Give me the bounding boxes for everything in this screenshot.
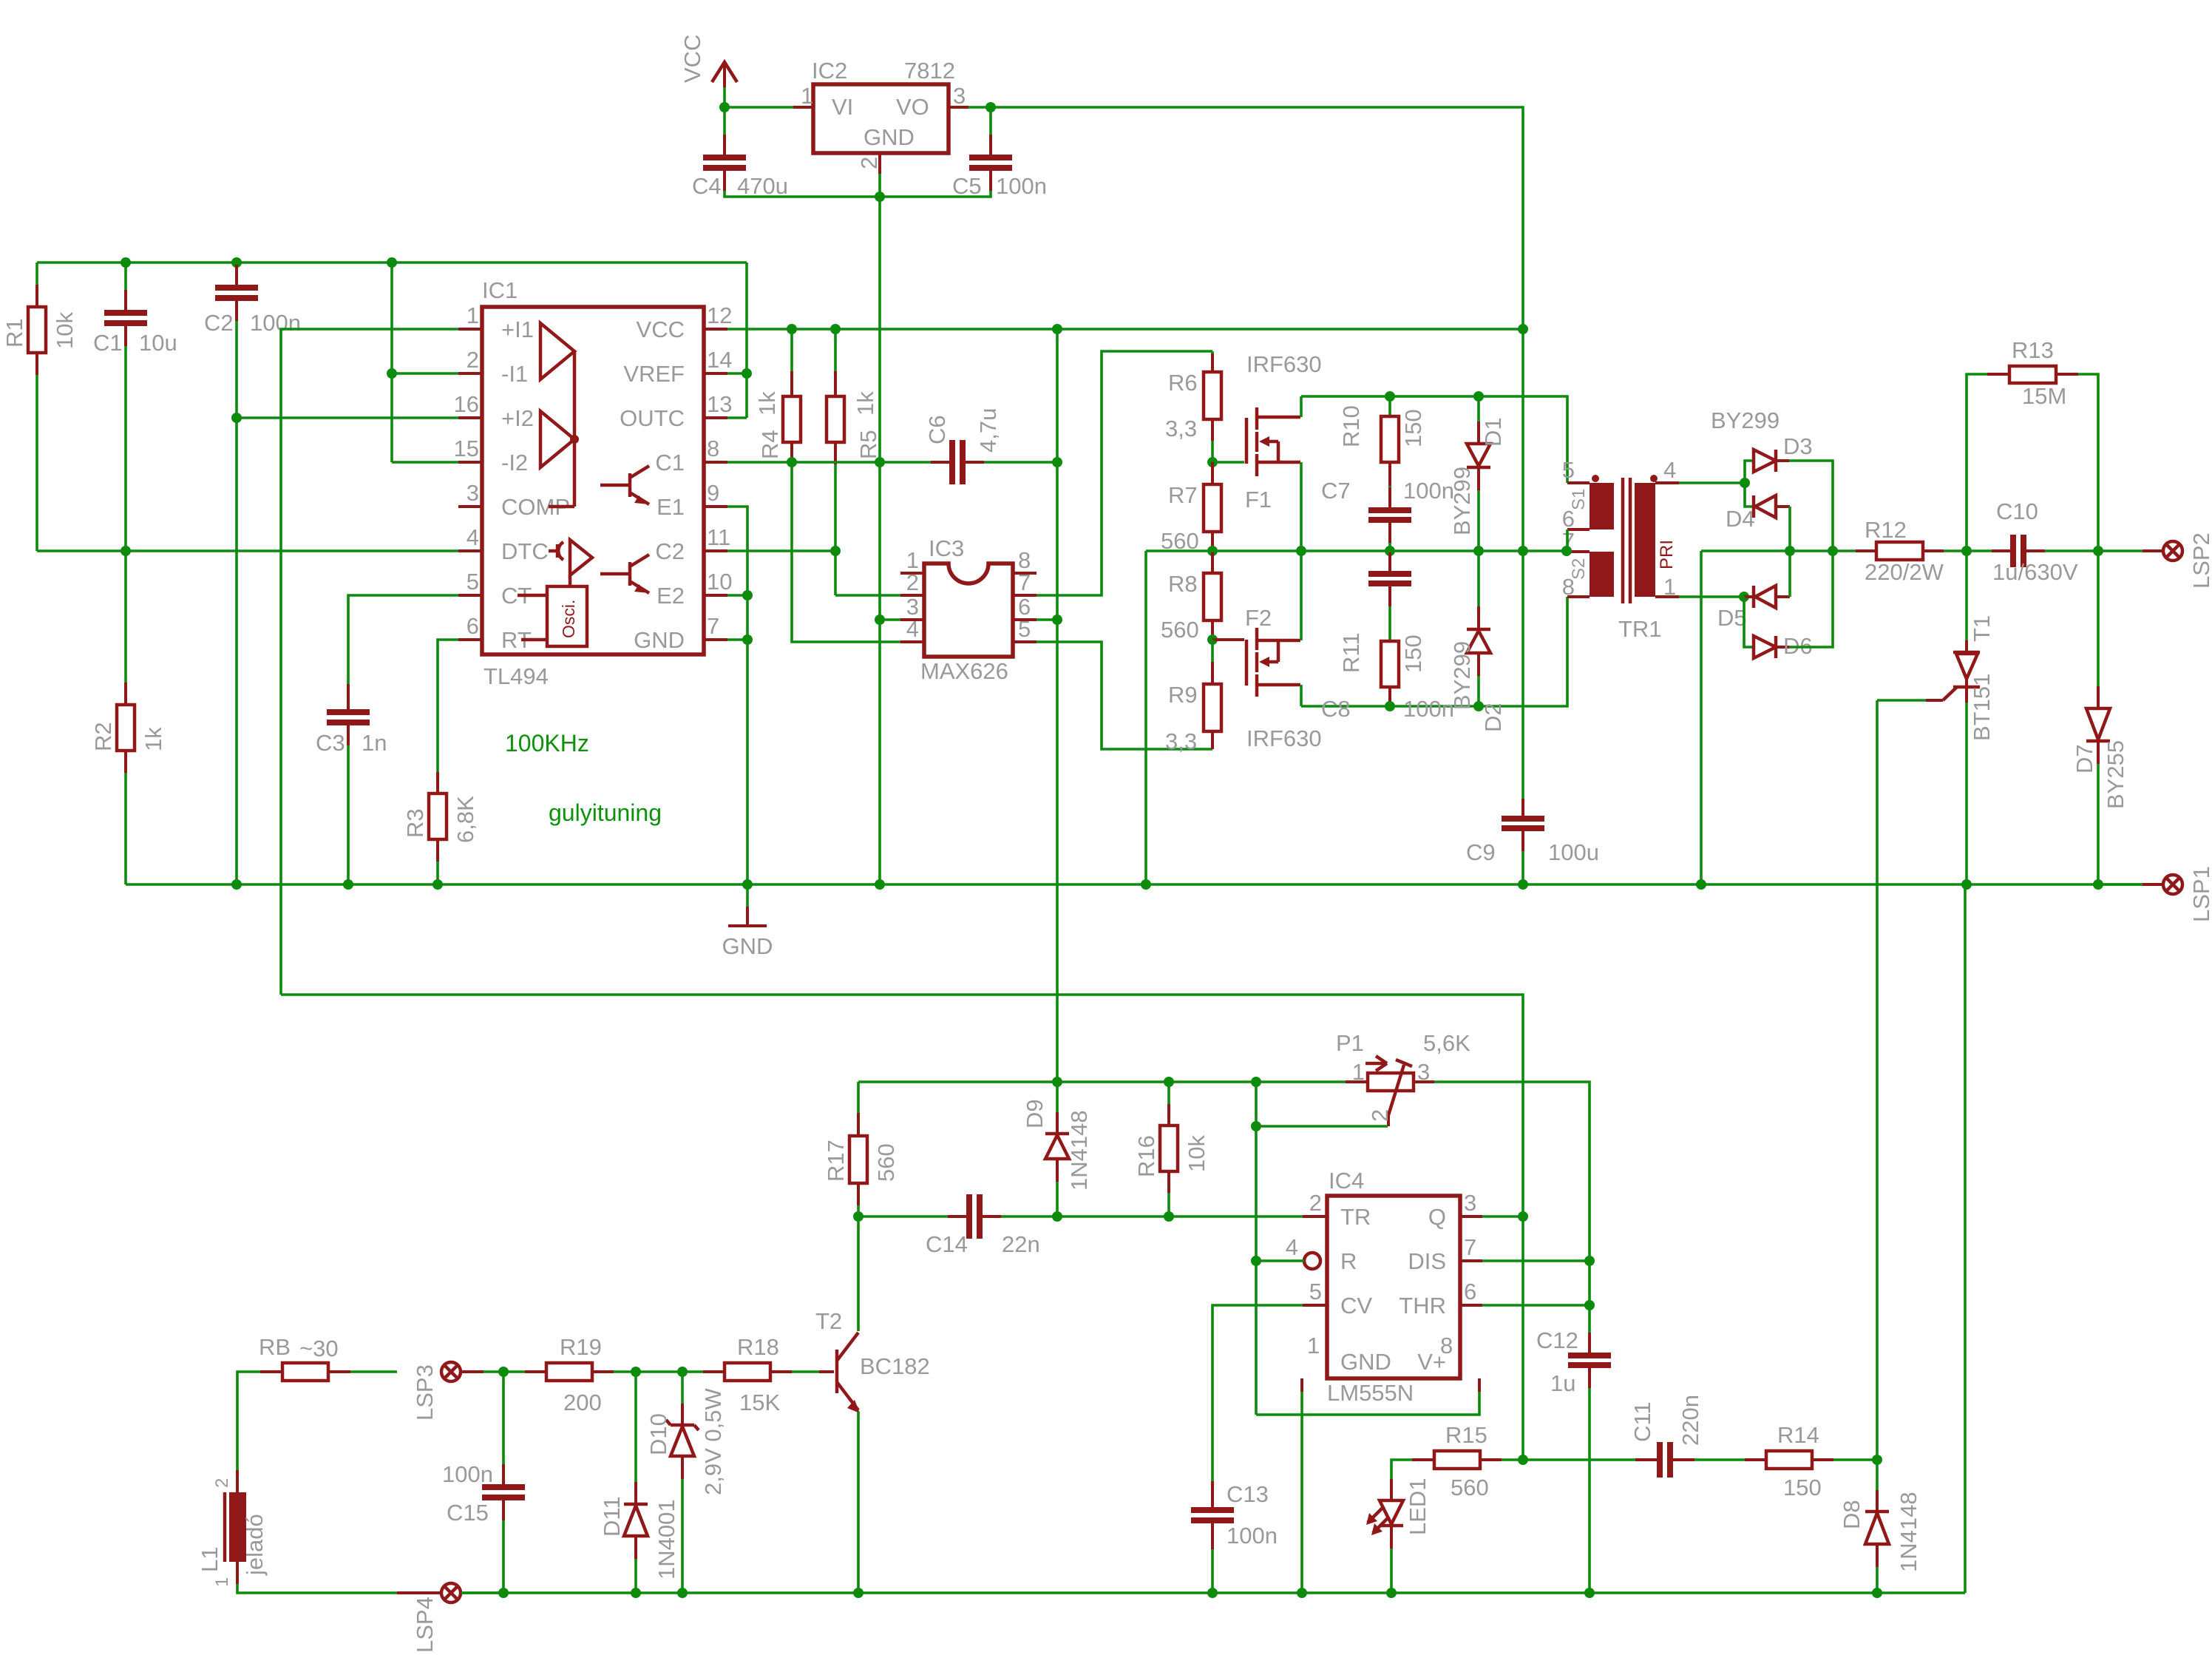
node TR1 pin7 mid rail (1561, 546, 1572, 556)
svg-text:560: 560 (1161, 617, 1199, 643)
resistor R6 3,3 (1165, 351, 1221, 462)
wire CT row (348, 595, 458, 684)
svg-text:R7: R7 (1168, 482, 1198, 508)
node bottom D11 (631, 1588, 641, 1598)
node wiper column top (1251, 1077, 1261, 1087)
node LSP3/C15/R19 (498, 1367, 509, 1377)
svg-text:100KHz: 100KHz (505, 730, 589, 757)
pin 15 -I2 (454, 436, 529, 475)
svg-text:R3: R3 (402, 808, 428, 838)
IC U4 LM555N box (1327, 1168, 1460, 1406)
svg-text:22n: 22n (1002, 1231, 1040, 1257)
capacitor C5 100n (952, 107, 1047, 199)
pin IC4-1 GND (1302, 1333, 1391, 1392)
wire +I2 row (237, 416, 458, 419)
svg-text:C1: C1 (655, 450, 685, 475)
diode D2 BY299 (1449, 551, 1506, 732)
node rail D7 (2093, 879, 2103, 890)
svg-text:THR: THR (1399, 1293, 1446, 1319)
diode D8 1N4148 (1839, 1460, 1921, 1593)
pin IC3-2 (900, 569, 924, 595)
node D9 top (1052, 1077, 1062, 1087)
svg-text:11: 11 (707, 524, 730, 550)
pin 4 DTC (458, 524, 549, 564)
node rail IC2 ground column (875, 879, 885, 890)
svg-text:5: 5 (1309, 1279, 1322, 1304)
svg-text:2: 2 (856, 157, 882, 169)
node bottom D10 (677, 1588, 688, 1598)
resistor R12 220/2W (1856, 517, 1967, 585)
wire TR row left segment (858, 1215, 949, 1218)
diode D9 1N4148 (1022, 1082, 1092, 1216)
node R17/C14/T2 junction (853, 1211, 864, 1222)
svg-text:LSP1: LSP1 (2188, 866, 2212, 922)
node mid rail junctions (1296, 546, 1306, 556)
node rail mid-rail drop (1141, 879, 1151, 890)
wire +I1 row and feedback column (281, 329, 458, 995)
node R4 top (787, 324, 797, 334)
svg-text:150: 150 (1783, 1475, 1822, 1500)
node VREF junction (742, 368, 752, 379)
svg-text:L1: L1 (197, 1547, 223, 1572)
svg-text:5: 5 (467, 569, 479, 595)
svg-text:15: 15 (454, 436, 479, 461)
wire TR row right segment (1000, 1215, 1303, 1218)
svg-text:100n: 100n (250, 310, 301, 336)
resistor R16 10k (1133, 1082, 1210, 1216)
svg-text:-I2: -I2 (501, 450, 528, 475)
svg-text:5,6K: 5,6K (1423, 1030, 1470, 1056)
pin 10 E2 (657, 569, 732, 609)
svg-text:D10: D10 (645, 1413, 671, 1455)
wire VREF column (reference rail down to VREF/OUTC) (745, 263, 748, 418)
svg-text:10u: 10u (139, 330, 177, 356)
pin 16 +I2 (454, 391, 534, 431)
svg-text:VO: VO (896, 94, 929, 120)
node bottom C15 (498, 1588, 509, 1598)
capacitor C10 1u/630V (1967, 498, 2098, 585)
svg-text:C6: C6 (924, 415, 950, 444)
svg-text:R6: R6 (1168, 370, 1198, 396)
svg-text:VREF: VREF (623, 361, 685, 387)
node D9 bottom (1052, 1211, 1062, 1222)
IC U3 MAX626 (920, 535, 1013, 684)
wire LSP1 rail (126, 883, 2143, 886)
svg-text:R: R (1340, 1248, 1357, 1274)
svg-text:R14: R14 (1777, 1422, 1819, 1448)
svg-text:R4: R4 (757, 430, 783, 459)
wire pot row 1463 (858, 1080, 1346, 1083)
svg-text:~30: ~30 (299, 1336, 339, 1361)
wire mid rail (1146, 549, 1567, 552)
svg-text:D2: D2 (1480, 703, 1506, 732)
svg-text:1n: 1n (362, 730, 387, 756)
svg-text:7: 7 (707, 613, 719, 639)
svg-text:DIS: DIS (1408, 1248, 1446, 1274)
transistor F2 IRF630 MOSFET (1245, 605, 1322, 751)
terminal LSP4 (397, 1583, 503, 1653)
node GND7 junction (742, 634, 753, 645)
zener diode D10 2,9V (645, 1372, 726, 1593)
resistor R8 560 (1161, 551, 1221, 643)
wire output rail to R12 (1701, 549, 1856, 552)
diode D1 BY299 (1449, 396, 1506, 551)
svg-text:PRI: PRI (1657, 540, 1677, 569)
node C7/C8 mid (1385, 546, 1395, 556)
resistor R9 3,3 (1165, 640, 1221, 754)
pin 14 VREF (623, 347, 732, 387)
pin IC4-8 V+ (1417, 1333, 1479, 1392)
node DIS junction (1584, 1256, 1595, 1266)
node D5/D6 column (1739, 592, 1749, 602)
capacitor C1 10u (93, 263, 177, 551)
svg-text:LSP3: LSP3 (412, 1364, 438, 1421)
svg-text:RB: RB (259, 1334, 291, 1360)
svg-text:R16: R16 (1133, 1135, 1159, 1177)
capacitor C11 220n (1629, 1395, 1745, 1478)
svg-text:5: 5 (1562, 457, 1575, 483)
node D1/D2 mid (1473, 546, 1484, 556)
svg-text:C3: C3 (316, 730, 345, 756)
pin IC3-3 (900, 594, 924, 620)
svg-text:MAX626: MAX626 (920, 658, 1008, 684)
node bottom T2 (853, 1588, 864, 1598)
svg-text:16: 16 (454, 391, 479, 417)
wire OUTC pin to column (727, 416, 747, 419)
node D2 bottom (1473, 701, 1484, 711)
svg-text:220/2W: 220/2W (1865, 559, 1944, 585)
pin 3 COMP (458, 480, 570, 520)
svg-text:jeladó: jeladó (242, 1514, 268, 1576)
resistor R13 15M (1967, 337, 2098, 551)
svg-text:100n: 100n (996, 173, 1047, 199)
wire RT row (438, 640, 458, 772)
svg-text:BY299: BY299 (1449, 641, 1475, 710)
svg-text:C13: C13 (1227, 1481, 1269, 1507)
wire between D11 and D10 nodes (636, 1370, 682, 1373)
svg-text:100n: 100n (442, 1461, 493, 1487)
wire VCC row from pin12 (727, 328, 1523, 331)
wire P1 wiper row to reset column (1255, 1082, 1258, 1415)
diode D4 BY299 (1726, 483, 1790, 532)
svg-text:1N4148: 1N4148 (1066, 1110, 1092, 1191)
wire IC2 ground column down to LSP1 rail (878, 197, 881, 884)
op-amp comparator 1 inside IC1 (540, 323, 574, 507)
svg-text:BT151: BT151 (1969, 674, 1995, 741)
wire R5 bottom to MAX pin2 (835, 594, 900, 597)
node C1 top (121, 257, 131, 268)
wire MAX pin3 stub wire (880, 618, 900, 621)
node R4 bottom (787, 457, 797, 467)
oscillator block inside IC1 (518, 586, 587, 646)
terminal LSP2 (2098, 532, 2212, 589)
pin 6 RT (458, 613, 532, 653)
wire bottom common row (461, 1591, 1965, 1594)
svg-text:IC3: IC3 (929, 535, 964, 561)
wire GND pin1 down to bottom row (1300, 1392, 1303, 1593)
svg-text:7812: 7812 (904, 58, 955, 84)
pin IC3-1 (900, 547, 924, 573)
wire F1 drain up (1300, 396, 1303, 417)
svg-text:CV: CV (1340, 1293, 1372, 1319)
svg-text:GND: GND (864, 124, 915, 150)
svg-text:470u: 470u (737, 173, 788, 199)
node R5 top (830, 324, 841, 334)
wire F2 drain up to mid rail (1300, 551, 1303, 640)
svg-text:R19: R19 (560, 1334, 602, 1360)
svg-text:150: 150 (1400, 409, 1426, 447)
node R11 bottom (1385, 701, 1395, 711)
svg-text:R2: R2 (90, 722, 116, 751)
svg-text:6: 6 (1464, 1279, 1476, 1304)
node VCC input junction (719, 102, 730, 112)
svg-text:3: 3 (953, 83, 966, 109)
capacitor C8 100n (1321, 551, 1454, 722)
svg-text:1N4001: 1N4001 (654, 1499, 679, 1580)
wire TR1 pin6 elbow to mid rail (1566, 529, 1569, 551)
wire divider column (390, 263, 393, 462)
node output rail at 2421 (1785, 546, 1795, 556)
svg-text:F1: F1 (1245, 487, 1272, 512)
svg-text:TR: TR (1340, 1204, 1371, 1230)
supply VCC symbol (679, 35, 737, 87)
svg-text:VCC: VCC (637, 317, 685, 342)
pin TR1-8 (1567, 595, 1590, 598)
svg-text:10: 10 (707, 569, 732, 595)
wire VO node to right corner (991, 107, 1523, 329)
svg-text:D9: D9 (1022, 1099, 1048, 1128)
svg-text:R10: R10 (1338, 405, 1364, 447)
node rail R3 (432, 879, 443, 890)
node IC2 GND junction (875, 192, 885, 202)
svg-text:1k: 1k (140, 727, 166, 751)
svg-text:2: 2 (1367, 1109, 1393, 1122)
svg-text:10k: 10k (1184, 1135, 1210, 1172)
svg-text:4,7u: 4,7u (975, 408, 1001, 453)
svg-text:R11: R11 (1338, 632, 1364, 673)
svg-text:15K: 15K (739, 1390, 780, 1415)
node C10 right / D7 top (2093, 546, 2103, 556)
wire E2 to emitter column (727, 594, 747, 597)
pin IC4-4 R with bubble (1286, 1234, 1357, 1274)
svg-text:100n: 100n (1403, 696, 1454, 722)
svg-text:D1: D1 (1480, 417, 1506, 447)
ground symbol GND (722, 907, 773, 959)
resistor R14 150 (1745, 1422, 1877, 1500)
svg-text:1N4148: 1N4148 (1896, 1492, 1921, 1572)
node D11 top (631, 1367, 641, 1377)
svg-text:R18: R18 (737, 1334, 779, 1360)
node MAX pin6 (1052, 615, 1062, 625)
resistor R11 150 (1338, 632, 1426, 706)
svg-text:1u: 1u (1550, 1370, 1575, 1396)
node Q output junction (1518, 1211, 1528, 1222)
resistor RB ~30 (237, 1334, 397, 1470)
node bottom IC4 GND (1297, 1588, 1307, 1598)
node C2 top (231, 257, 242, 268)
resistor R5 1k (827, 329, 881, 595)
svg-text:D4: D4 (1726, 506, 1755, 532)
node rail C9 (1518, 879, 1528, 890)
capacitor C6 4,7u (924, 408, 1001, 484)
svg-text:10k: 10k (52, 312, 78, 349)
svg-text:1: 1 (801, 83, 813, 109)
resistor R17 560 (823, 1082, 899, 1216)
svg-text:4: 4 (467, 524, 479, 550)
svg-text:12: 12 (707, 302, 732, 328)
wire TR1 pin1 to D5/D6 node (1679, 595, 1744, 598)
terminal LSP3 (412, 1362, 503, 1421)
node D10 top (677, 1367, 688, 1377)
svg-text:2: 2 (467, 347, 479, 373)
wire C1 row pin8 to C6 left (727, 461, 932, 464)
svg-text:C2: C2 (655, 538, 685, 564)
wire T2 emitter down to bottom row (857, 1412, 860, 1593)
wire VCC stem (723, 87, 726, 107)
svg-text:1: 1 (212, 1577, 232, 1587)
pin 5 CT (458, 569, 532, 609)
wire F2 source down to bottom rail (1300, 685, 1303, 706)
svg-text:TL494: TL494 (484, 663, 549, 689)
wire top drain node row (1301, 396, 1567, 483)
svg-text:3: 3 (467, 480, 479, 506)
wire output drop to LSP1 rail (1700, 551, 1703, 884)
svg-text:2: 2 (906, 569, 919, 595)
wire V+ pin8 loop to wiper column (1256, 1392, 1479, 1415)
svg-text:C4: C4 (692, 173, 722, 199)
resistor R15 560 (1391, 1422, 1523, 1500)
svg-text:D8: D8 (1839, 1500, 1865, 1529)
wire CV to C13 (1212, 1305, 1303, 1481)
pin IC4-2 TR (1303, 1190, 1371, 1230)
svg-text:9: 9 (707, 480, 719, 506)
diode D11 1N4001 (599, 1372, 679, 1593)
svg-text:Q: Q (1428, 1204, 1446, 1230)
svg-text:C14: C14 (926, 1231, 968, 1257)
svg-text:4: 4 (1286, 1234, 1298, 1260)
node VCC column mid rail (1518, 546, 1528, 556)
node F2 gate (1207, 634, 1218, 645)
svg-text:1u/630V: 1u/630V (1992, 559, 2078, 585)
svg-text:1k: 1k (852, 391, 878, 416)
node R15 right / Q column / C11 (1518, 1455, 1528, 1465)
node pin11/R5 junction (830, 546, 841, 556)
resistor R3 6,8K (402, 772, 478, 884)
node R16 bottom (1164, 1211, 1174, 1222)
wire T2 collector up to TR row (857, 1216, 860, 1331)
node DTC / C1 / R2 junction (121, 546, 131, 556)
transformer TR1 winding PRI (1635, 483, 1677, 597)
wire reset net to pin4 bubble (1256, 1259, 1304, 1262)
svg-text:IC4: IC4 (1329, 1168, 1364, 1194)
svg-text:VCC: VCC (679, 35, 705, 83)
svg-text:1: 1 (1352, 1059, 1365, 1085)
svg-text:C5: C5 (952, 173, 982, 199)
svg-text:150: 150 (1400, 634, 1426, 673)
thyristor T1 BT151 (1877, 551, 1995, 884)
svg-text:BY299: BY299 (1711, 407, 1780, 433)
capacitor C3 1n (316, 684, 387, 884)
diode D7 BY255 (2072, 551, 2128, 884)
capacitor C15 100n (442, 1372, 525, 1593)
svg-text:C7: C7 (1321, 478, 1351, 504)
node rail GND column (742, 879, 753, 890)
svg-text:100u: 100u (1548, 839, 1599, 865)
node D1 top (1473, 391, 1484, 402)
capacitor C7 100n (1321, 478, 1454, 551)
resistor R2 1k (90, 551, 166, 884)
pin IC3-7 (1013, 569, 1037, 595)
wire feedback +I1 row (281, 995, 1523, 1216)
svg-text:BY299: BY299 (1449, 467, 1475, 535)
svg-text:+I1: +I1 (501, 317, 534, 342)
node C6 right column (1052, 457, 1062, 467)
node E2 junction (742, 590, 753, 600)
transistor T2 BC182 (815, 1308, 930, 1413)
capacitor C12 1u (1536, 1327, 1611, 1593)
svg-text:3,3: 3,3 (1165, 728, 1197, 754)
wire D4/D5 anodes to output rail (1788, 507, 1791, 597)
resistor R4 1k (754, 329, 801, 462)
svg-text:R1: R1 (1, 318, 27, 348)
wire MAX pin5 gate drive F2 (1037, 642, 1212, 749)
dead-time comparator inside IC1 (549, 540, 592, 586)
op-amp comparator 2 inside IC1 (540, 411, 579, 467)
svg-text:D11: D11 (599, 1496, 625, 1537)
node R13/T1 column (1961, 546, 1972, 556)
wire F2 gate (1212, 638, 1244, 641)
diode D6 BY299 (1744, 597, 1813, 659)
svg-text:GND: GND (722, 933, 773, 959)
wire THR to column (1482, 1304, 1590, 1307)
node rail C2 (231, 879, 242, 890)
svg-text:2: 2 (212, 1478, 232, 1488)
svg-text:BY255: BY255 (2103, 740, 2128, 809)
node divider column top (387, 257, 397, 268)
wire P1 pin3 to DIS/THR column (1434, 1082, 1590, 1342)
node R14/D8/T1 gate (1872, 1455, 1882, 1465)
node rail C3 (343, 879, 353, 890)
transformer TR1 core (1623, 478, 1630, 603)
svg-text:D5: D5 (1717, 605, 1747, 631)
LED LED1 (1366, 1478, 1431, 1593)
svg-text:LSP4: LSP4 (412, 1597, 438, 1653)
svg-text:GND: GND (634, 627, 685, 653)
svg-text:T1: T1 (1969, 615, 1995, 642)
node C6 column top (1052, 324, 1062, 334)
wire mid rail drop to LSP1 rail (1144, 551, 1147, 749)
wire T1 gate column down (1876, 700, 1879, 1460)
node R7/R8 mid rail (1207, 546, 1218, 556)
wire DIS to column (1482, 1259, 1590, 1262)
wire D3/D6 cathodes column (1789, 461, 1833, 647)
svg-text:7: 7 (1464, 1234, 1476, 1260)
node output rail at 2479 (1828, 546, 1838, 556)
svg-text:VI: VI (832, 94, 853, 120)
svg-text:100n: 100n (1227, 1523, 1278, 1549)
terminal LSP1 (2098, 866, 2212, 922)
capacitor C13 100n (1191, 1481, 1278, 1593)
pin 11 C2 (655, 524, 730, 564)
svg-text:GND: GND (1340, 1349, 1391, 1375)
svg-text:P1: P1 (1336, 1030, 1364, 1056)
svg-text:560: 560 (873, 1143, 899, 1182)
wire VO to C5 node (968, 106, 991, 109)
node reset junction (1251, 1256, 1261, 1266)
svg-text:3: 3 (1464, 1190, 1476, 1216)
pin IC4-6 THR (1399, 1279, 1482, 1319)
svg-text:DTC: DTC (501, 538, 549, 564)
